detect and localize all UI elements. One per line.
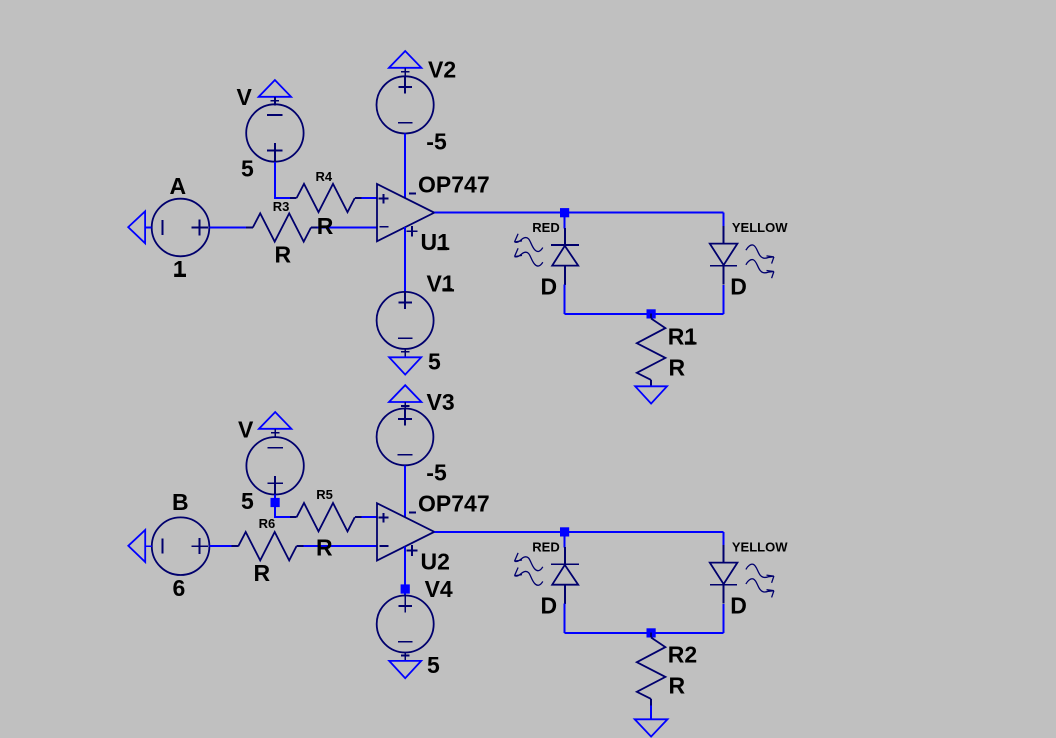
svg-text:R2: R2 xyxy=(668,642,697,668)
resistor R3 xyxy=(246,227,253,229)
power symbol above V2 xyxy=(389,51,421,68)
svg-text:D: D xyxy=(541,592,558,618)
svg-text:-5: -5 xyxy=(426,460,447,486)
wire R5 to op-amp non-inverting input xyxy=(362,516,377,518)
svg-text:RED: RED xyxy=(532,539,559,554)
svg-text:V: V xyxy=(237,84,253,110)
svg-text:-5: -5 xyxy=(426,128,447,154)
wire op-amp output to yellow LED branch (bottom) xyxy=(434,531,723,533)
svg-text:D: D xyxy=(730,592,747,618)
wire op-amp output to yellow LED branch xyxy=(434,212,723,214)
wire junction down to red LED xyxy=(564,217,566,228)
source V (5 V, top circuit) xyxy=(246,104,303,161)
wire V2 to op-amp top supply pin xyxy=(404,134,406,199)
wire down to yellow LED xyxy=(723,213,725,227)
svg-text:D: D xyxy=(730,273,747,299)
svg-text:OP747: OP747 xyxy=(418,172,490,198)
light arrows of yellow LED xyxy=(746,245,774,264)
wire op-amp bottom supply pin to V4 xyxy=(404,546,406,595)
wire A to R3 xyxy=(209,227,246,229)
svg-text:5: 5 xyxy=(241,155,254,181)
wire V3 to op-amp top supply pin xyxy=(404,465,406,517)
power symbol above V3 xyxy=(389,385,421,402)
LED D yellow (bottom circuit) xyxy=(723,545,725,563)
resistor R1 xyxy=(650,314,652,319)
junction node above V4 xyxy=(401,584,410,593)
wire R2 to ground xyxy=(650,705,652,719)
junction node at R2 xyxy=(647,628,656,637)
LED D red (top circuit) xyxy=(564,228,566,245)
svg-text:R: R xyxy=(275,242,292,268)
svg-text:R: R xyxy=(669,355,686,381)
svg-text:R3: R3 xyxy=(273,199,290,214)
svg-text:A: A xyxy=(170,173,187,199)
svg-text:RED: RED xyxy=(532,220,559,235)
light arrows of yellow LED (bottom) xyxy=(746,564,774,583)
resistor R6 xyxy=(232,545,239,547)
svg-text:5: 5 xyxy=(428,349,441,375)
svg-text:U1: U1 xyxy=(421,229,451,255)
svg-text:V4: V4 xyxy=(425,576,453,602)
source A (input voltage source, value 1) xyxy=(152,199,210,257)
svg-text:V2: V2 xyxy=(428,56,456,82)
source V (5 V, bottom circuit) xyxy=(246,437,303,494)
svg-text:1: 1 xyxy=(173,256,186,282)
wire B to R6 xyxy=(209,545,231,547)
svg-text:R: R xyxy=(254,560,271,586)
wire yellow LED to bottom rail (bottom) xyxy=(723,604,725,633)
op-amp U1 OP747 xyxy=(377,184,434,241)
source V3 (-5 V supply) xyxy=(377,409,434,466)
wire red LED to bottom rail (bottom) xyxy=(564,604,566,633)
wire R4 to op-amp non-inverting input xyxy=(362,197,377,199)
source V1 (5 V supply) xyxy=(377,292,434,349)
wire yellow LED to bottom rail xyxy=(723,285,725,314)
bottom rail wire of LED bridge xyxy=(565,313,724,315)
svg-text:5: 5 xyxy=(427,652,440,678)
svg-text:R: R xyxy=(669,673,686,699)
op-amp U2 OP747 xyxy=(377,503,434,560)
resistor R2 xyxy=(650,633,652,638)
wire red LED to bottom rail xyxy=(564,285,566,314)
svg-text:R: R xyxy=(316,535,333,561)
junction node at output/red branch (bottom) xyxy=(560,527,569,536)
svg-text:OP747: OP747 xyxy=(418,491,490,517)
wire op-amp bottom supply pin to V1 xyxy=(404,227,406,292)
svg-text:R4: R4 xyxy=(316,169,333,184)
source V4 (5 V supply) xyxy=(377,596,434,653)
wire R3 to op-amp inverting input xyxy=(318,227,377,229)
svg-text:V1: V1 xyxy=(427,270,455,296)
stem below V4 xyxy=(404,653,406,662)
svg-text:R5: R5 xyxy=(316,487,333,502)
ground symbol below V1 xyxy=(389,357,421,374)
source B (input voltage source, value 6) xyxy=(152,517,210,575)
svg-text:5: 5 xyxy=(241,488,254,514)
junction node at output/red branch xyxy=(560,208,569,217)
svg-text:R: R xyxy=(317,213,334,239)
resistor R4 xyxy=(290,197,297,199)
svg-text:YELLOW: YELLOW xyxy=(732,220,788,235)
svg-text:B: B xyxy=(172,489,189,515)
wire down to yellow LED (bottom) xyxy=(723,532,725,546)
svg-text:R6: R6 xyxy=(259,516,276,531)
wire V to R5 through junction xyxy=(275,494,290,517)
ground below R1 xyxy=(635,386,667,403)
light arrows of red LED (bottom) xyxy=(515,553,543,571)
svg-text:V3: V3 xyxy=(427,389,455,415)
ground below R2 xyxy=(635,719,668,736)
source V2 (-5 V supply) xyxy=(377,76,434,133)
bottom rail wire of LED bridge (bottom) xyxy=(565,632,724,634)
power symbol above V xyxy=(259,80,291,97)
stem below V1 xyxy=(404,349,406,358)
svg-text:YELLOW: YELLOW xyxy=(732,539,788,554)
svg-text:R1: R1 xyxy=(668,324,698,350)
svg-text:D: D xyxy=(541,273,558,299)
wire junction down to red LED (bottom) xyxy=(564,536,566,547)
power symbol above V (bottom) xyxy=(259,412,291,429)
resistor R5 xyxy=(290,516,297,518)
svg-text:6: 6 xyxy=(173,575,186,601)
wire V to R4 xyxy=(275,162,290,198)
light arrows of red LED xyxy=(515,234,543,252)
wire R6 to op-amp inverting input xyxy=(303,545,377,547)
junction node at R1 xyxy=(647,309,656,318)
ground symbol below V4 xyxy=(389,661,421,678)
svg-text:V: V xyxy=(238,417,254,443)
junction node below V (bottom) xyxy=(271,498,280,507)
LED D yellow (top circuit) xyxy=(723,226,725,244)
LED D red (bottom circuit) xyxy=(564,547,566,564)
svg-text:U2: U2 xyxy=(421,548,450,574)
